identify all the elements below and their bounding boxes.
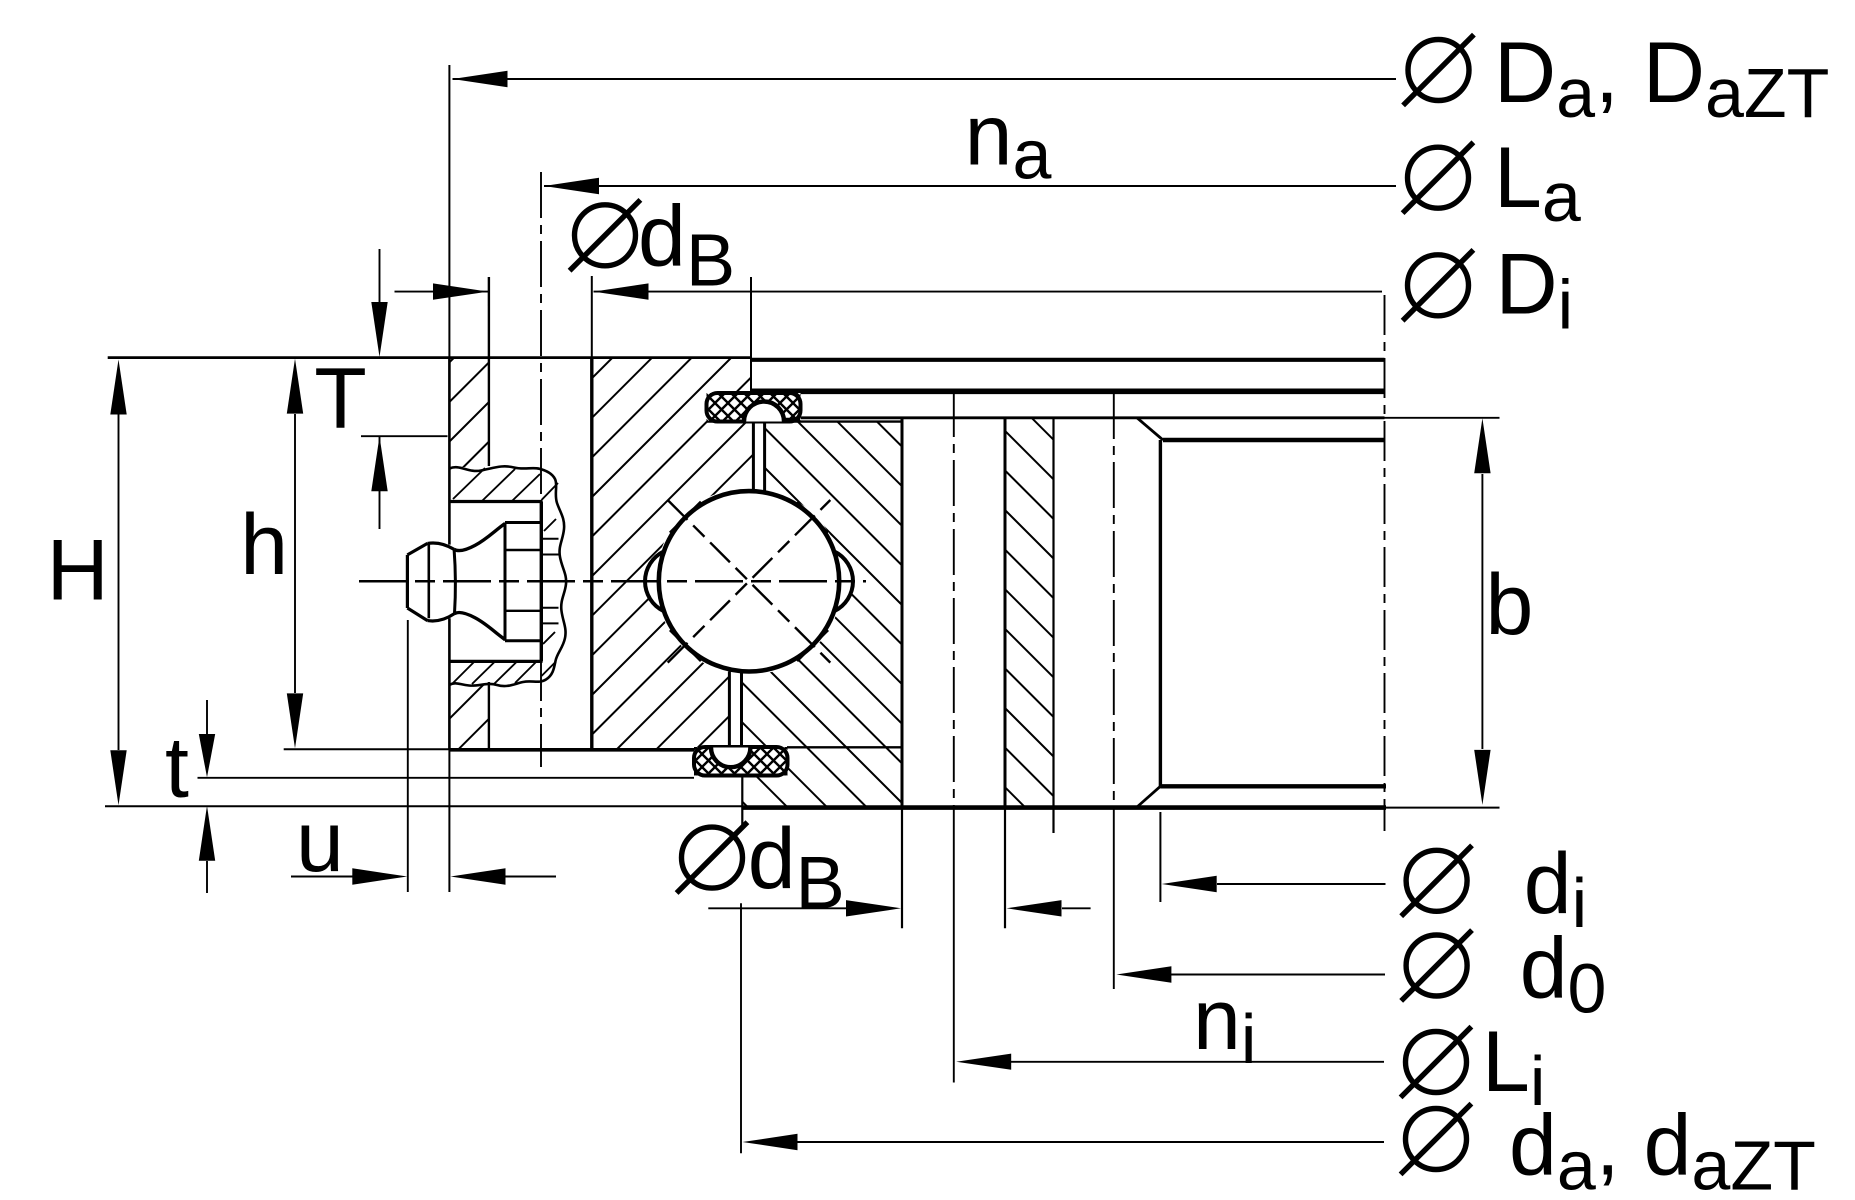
svg-text:T: T [314,351,367,447]
svg-text:u: u [296,794,344,890]
svg-text:b: b [1486,557,1534,653]
svg-text:t: t [165,720,189,816]
svg-text:H: H [47,523,109,619]
svg-text:h: h [240,497,288,593]
